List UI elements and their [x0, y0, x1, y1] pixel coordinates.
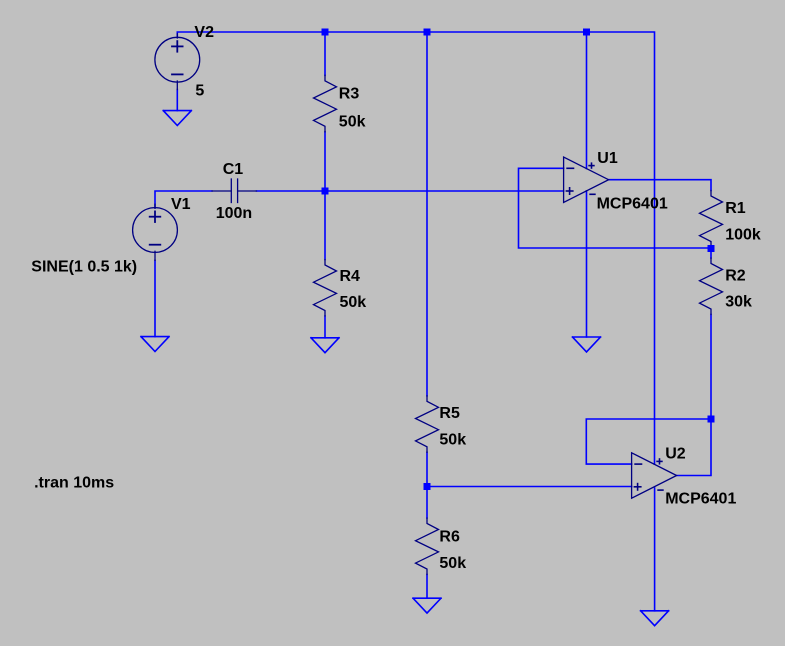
svg-text:5: 5	[195, 82, 204, 99]
svg-text:U2: U2	[665, 446, 686, 463]
svg-text:R4: R4	[340, 268, 361, 285]
svg-text:R5: R5	[439, 405, 460, 422]
svg-text:SINE(1 0.5 1k): SINE(1 0.5 1k)	[31, 258, 137, 275]
svg-text:C1: C1	[223, 161, 244, 178]
svg-text:R1: R1	[725, 200, 746, 217]
svg-text:50k: 50k	[439, 555, 466, 572]
svg-text:MCP6401: MCP6401	[597, 196, 668, 213]
svg-text:V2: V2	[194, 24, 214, 41]
svg-text:50k: 50k	[339, 113, 366, 130]
svg-text:U1: U1	[597, 150, 618, 167]
svg-text:50k: 50k	[439, 432, 466, 449]
svg-text:.tran 10ms: .tran 10ms	[34, 474, 114, 491]
svg-text:V1: V1	[171, 196, 191, 213]
svg-text:MCP6401: MCP6401	[665, 491, 736, 508]
svg-text:R6: R6	[439, 529, 460, 546]
svg-text:50k: 50k	[340, 294, 367, 311]
svg-text:100n: 100n	[216, 205, 252, 222]
svg-text:30k: 30k	[725, 294, 752, 311]
svg-text:100k: 100k	[725, 226, 761, 243]
svg-text:R3: R3	[339, 86, 360, 103]
svg-text:R2: R2	[725, 268, 746, 285]
